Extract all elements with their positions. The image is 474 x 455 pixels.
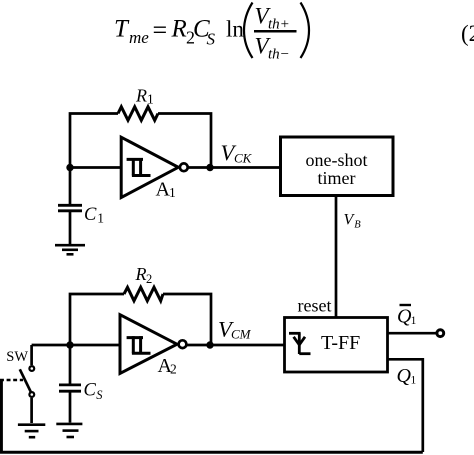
switch SW top contact	[29, 366, 34, 371]
wire switch drop	[30, 345, 33, 365]
svg-text:R: R	[171, 16, 187, 43]
svg-text:S: S	[207, 30, 216, 49]
label VB	[344, 212, 362, 231]
svg-text:CK: CK	[234, 151, 253, 166]
T-FF block U2	[285, 318, 388, 373]
ground below C1	[55, 245, 85, 254]
svg-text:one-shot: one-shot	[306, 150, 368, 170]
svg-text:Q: Q	[397, 365, 412, 387]
label C1	[84, 205, 104, 226]
op-amp A1 (schmitt inverter)	[121, 137, 178, 197]
equation Tme = R2 CS ln(Vth+/Vth-)	[114, 3, 309, 63]
svg-text:timer: timer	[318, 168, 356, 188]
wire lower feedback right side	[163, 294, 211, 345]
node A2 input junction	[66, 341, 73, 348]
svg-text:(2: (2	[461, 21, 474, 46]
resistor R1	[118, 107, 158, 121]
svg-text:2: 2	[146, 272, 152, 286]
svg-text:1: 1	[411, 315, 417, 327]
label R2	[135, 264, 153, 286]
svg-text:th−: th−	[268, 47, 290, 63]
svg-text:2: 2	[170, 361, 177, 376]
terminal Qbar open circle	[437, 330, 444, 337]
ground below switch	[18, 425, 45, 438]
label VCK	[221, 140, 253, 166]
node VCK junction	[206, 164, 213, 171]
one-shot timer block U1	[281, 137, 394, 196]
svg-text:=: =	[153, 16, 168, 45]
label VCM	[218, 316, 252, 341]
resistor R2	[124, 287, 163, 301]
inverter bubble A2	[179, 340, 187, 348]
wire switch to ground	[30, 398, 33, 423]
wire upper feedback right side	[158, 114, 211, 168]
svg-text:me: me	[129, 28, 149, 47]
hysteresis symbol A2	[127, 336, 151, 353]
wire upper feedback loop top	[70, 114, 118, 168]
svg-text:R: R	[135, 264, 147, 284]
switch SW bottom contact	[29, 392, 34, 397]
wire A1 input	[70, 166, 121, 169]
svg-text:B: B	[354, 220, 361, 231]
label Q1	[397, 365, 417, 387]
label A2	[158, 355, 177, 377]
switch SW blade	[20, 369, 31, 392]
svg-text:reset: reset	[298, 296, 332, 316]
svg-text:SW: SW	[6, 349, 28, 365]
svg-text:C: C	[84, 205, 97, 225]
wire A2 input	[32, 344, 120, 347]
svg-text:C: C	[84, 381, 97, 401]
falling-edge clock symbol	[289, 333, 311, 354]
label one-shot timer	[306, 150, 368, 188]
svg-text:T: T	[114, 16, 130, 43]
op-amp A2 (schmitt inverter)	[120, 315, 177, 374]
node VCM junction	[206, 341, 213, 348]
inverter bubble A1	[180, 163, 188, 171]
svg-text:1: 1	[97, 211, 104, 226]
wire Qbar output	[388, 332, 437, 335]
wire Q1 output	[388, 359, 423, 452]
label R1	[135, 85, 154, 106]
svg-text:T-FF: T-FF	[321, 332, 360, 354]
wire lower feedback loop top	[70, 294, 124, 345]
svg-text:1: 1	[411, 375, 417, 387]
dashed control line to switch	[0, 379, 23, 381]
wire VB one-shot to T-FF	[335, 196, 338, 318]
wire A1 output to one-shot	[188, 166, 280, 169]
wire A2 output to T-FF	[186, 344, 284, 347]
ground below CS	[56, 424, 82, 437]
svg-text:ln: ln	[226, 17, 244, 42]
svg-text:CM: CM	[231, 327, 252, 342]
svg-text:R: R	[135, 85, 147, 105]
svg-text:1: 1	[169, 185, 176, 200]
node C1 junction	[66, 164, 73, 171]
svg-text:S: S	[96, 388, 103, 402]
label CS	[84, 381, 104, 403]
hysteresis symbol A1	[127, 158, 151, 176]
capacitor C1	[58, 168, 82, 245]
svg-text:1: 1	[147, 92, 154, 107]
capacitor CS	[59, 345, 81, 423]
label A1	[156, 179, 176, 201]
label Q1bar	[397, 305, 417, 328]
wire feedback bottom	[1, 380, 422, 452]
